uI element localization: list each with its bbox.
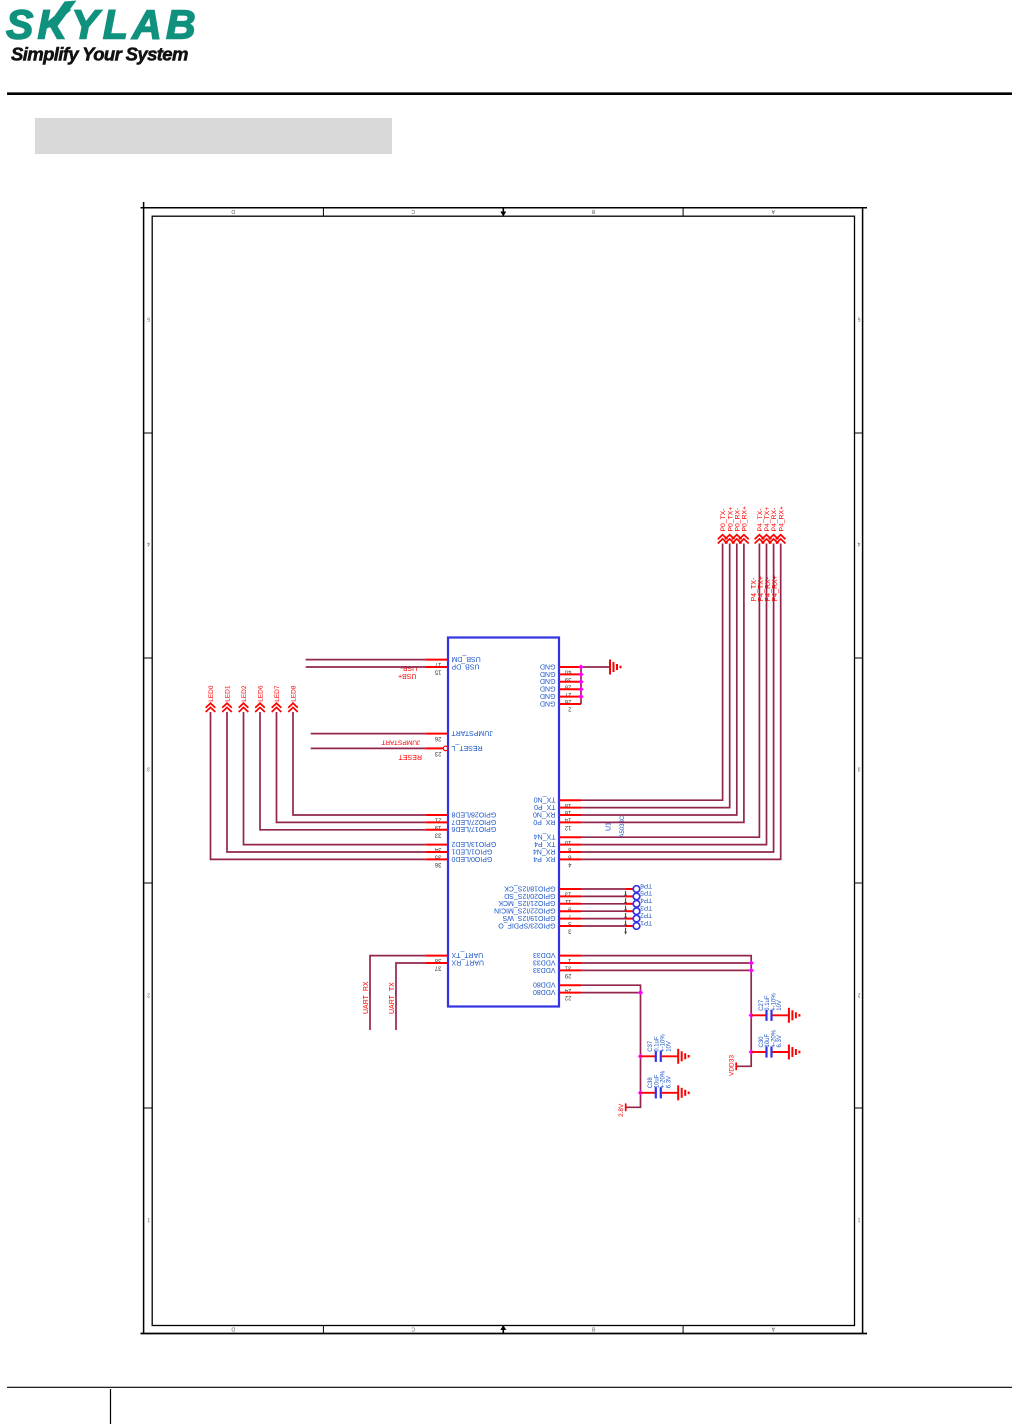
bottom border arrow [502, 1330, 504, 1334]
ground for C37 [677, 1049, 679, 1064]
svg-text:TP3: TP3 [640, 904, 652, 911]
svg-text:GPIO19/I2S_WS: GPIO19/I2S_WS [502, 914, 555, 921]
wire RESET [311, 747, 426, 749]
junction GND 4 [578, 687, 583, 692]
junction GND 5 [578, 694, 583, 699]
svg-text:LED8: LED8 [291, 685, 298, 702]
svg-text:5: 5 [147, 316, 150, 322]
wire TP4 lead [626, 903, 634, 905]
pin 5 GPIO19/I2S_WS (right) [559, 918, 581, 920]
svg-text:0.1uF: 0.1uF [765, 995, 771, 1011]
svg-text:RX_P4: RX_P4 [533, 855, 555, 862]
wire P4_RX+ [581, 544, 781, 860]
svg-text:D: D [231, 1326, 235, 1332]
svg-text:1: 1 [858, 1217, 861, 1223]
svg-text:JUMPSTART: JUMPSTART [451, 729, 493, 736]
top border arrow [502, 208, 504, 212]
wire P4_TX+ [581, 544, 767, 845]
test point TP6 [633, 886, 640, 893]
capacitor C37 0.1uF [641, 1055, 656, 1057]
wire VDD80 pin22 [581, 992, 641, 994]
svg-text:A: A [771, 1326, 775, 1332]
test point TP6 pin arrow [625, 891, 627, 895]
wire TP6 lead [626, 888, 634, 890]
svg-text:B: B [591, 1326, 595, 1332]
svg-text:USB+: USB+ [398, 672, 416, 679]
wire UART_RX vertical [370, 956, 425, 1030]
pin 31 VDD33 (right) [559, 962, 581, 964]
test point TP1 pin arrow [625, 928, 627, 932]
wire UART_TX vertical [396, 963, 425, 1030]
capacitor C27 0.1uF [751, 1014, 766, 1016]
capacitor C38 10uF [641, 1092, 656, 1094]
svg-text:2: 2 [858, 992, 861, 998]
test point TP3 pin arrow [625, 913, 627, 917]
svg-text:USB_DM: USB_DM [451, 655, 480, 662]
pin 14 RX_N0 (right) [559, 814, 581, 816]
svg-text:RESET: RESET [398, 753, 422, 760]
off-page flag P0_RX- [732, 535, 742, 540]
svg-text:LED2: LED2 [241, 685, 248, 702]
svg-text:P4_TX-: P4_TX- [751, 577, 758, 601]
pin 6 RX_N4 (right) [559, 851, 581, 853]
pin 26 JUMPSTART (left) [425, 733, 448, 735]
svg-text:TX_P4: TX_P4 [534, 840, 556, 847]
off-page flag LED1 [222, 703, 232, 708]
svg-text:GPIO21/I2S_MCK: GPIO21/I2S_MCK [498, 899, 556, 906]
svg-text:P0_TX+: P0_TX+ [727, 507, 734, 532]
pin 7 GPIO22/I2S_MICIN (right) [559, 910, 581, 912]
svg-text:26: 26 [434, 735, 441, 741]
wire TP5 [581, 895, 626, 897]
svg-text:P0_RX+: P0_RX+ [742, 506, 749, 532]
svg-text:C27: C27 [759, 999, 765, 1011]
test point TP5 pin arrow [625, 898, 627, 902]
off-page flag P0_TX- [718, 535, 728, 540]
svg-text:10V: 10V [777, 1000, 783, 1011]
svg-text:RX_P0: RX_P0 [533, 818, 555, 825]
svg-text:GND: GND [540, 677, 556, 684]
ground (GND pins) [609, 660, 611, 675]
pin 15 USB_DP (left) [425, 666, 448, 668]
junction VDD80 [638, 990, 643, 995]
pin 18 TX_N0 (right) [559, 799, 581, 801]
svg-text:33: 33 [434, 831, 441, 837]
junction VDD33 a [749, 960, 754, 965]
test point TP5 [633, 893, 640, 900]
svg-text:RX_N4: RX_N4 [533, 847, 556, 854]
logo K flourish stroke [47, 1, 77, 28]
svg-text:TP6: TP6 [640, 882, 652, 889]
svg-text:A: A [771, 208, 775, 214]
svg-text:GPIO18/I2S_CK: GPIO18/I2S_CK [504, 884, 556, 891]
svg-text:C37: C37 [648, 1040, 654, 1052]
test point TP2 [633, 915, 640, 922]
pin 13 GPIO18/I2S_CK (right) [559, 888, 581, 890]
svg-text:USB_DP: USB_DP [451, 662, 479, 669]
pin 37 UART_RX (left) [425, 962, 448, 964]
svg-text:4: 4 [147, 541, 150, 547]
junction GND 3 [578, 679, 583, 684]
test point TP1 [633, 923, 640, 930]
sheet outer border [141, 207, 868, 209]
footer column divider [110, 1389, 112, 1424]
op-amp n/a: IC U1 body [448, 638, 559, 1007]
header rule [7, 92, 1012, 95]
wire TP2 lead [626, 918, 634, 920]
svg-text:B: B [591, 208, 595, 214]
svg-text:GPIO0/LED0: GPIO0/LED0 [451, 855, 492, 862]
wire TP2 [581, 918, 626, 920]
svg-text:GPIO22/I2S_MICIN: GPIO22/I2S_MICIN [494, 907, 555, 914]
pin 33 GPIO17/LED6 (left) [425, 829, 448, 831]
pin 23 RESET_L (left) [443, 746, 448, 751]
off-page flag P0_RX+ [739, 535, 749, 540]
test point TP4 [633, 901, 640, 908]
svg-text:UART_RX: UART_RX [363, 981, 370, 1014]
bottom border zone dividers [322, 1326, 324, 1334]
wire P0_RX+ [581, 544, 744, 823]
off-page flag P4_RX+ [776, 535, 786, 540]
junction C30 [749, 1049, 754, 1054]
wire LED2 [244, 712, 426, 845]
wire P0_RX- [581, 544, 737, 816]
svg-text:P4_TX+: P4_TX+ [764, 507, 771, 532]
svg-text:RX_N0: RX_N0 [533, 810, 556, 817]
wire GND bus vertical [580, 667, 582, 704]
svg-text:4: 4 [568, 861, 572, 867]
pin 22 VDD80 (right) [559, 992, 581, 994]
pin 11 GPIO20/I2S_SD (right) [559, 895, 581, 897]
svg-text:C: C [411, 1326, 415, 1332]
power flag 2.8V [625, 1103, 627, 1111]
pin 34 GPIO13/LED2 (left) [425, 844, 448, 846]
svg-text:6.3V: 6.3V [666, 1076, 672, 1088]
pin 16 TX_P0 (right) [559, 807, 581, 809]
svg-text:Simplify Your System: Simplify Your System [11, 44, 188, 65]
svg-text:VDD33: VDD33 [728, 1055, 735, 1076]
svg-text:LED7: LED7 [274, 685, 281, 702]
junction C38 [638, 1090, 643, 1095]
wire LED6 [260, 712, 425, 830]
svg-text:C: C [411, 208, 415, 214]
svg-text:VDD33: VDD33 [533, 966, 556, 973]
svg-text:1: 1 [147, 1217, 150, 1223]
svg-text:29: 29 [564, 972, 571, 978]
svg-text:15: 15 [434, 669, 441, 675]
left border zone dividers [144, 432, 153, 434]
power flag VDD33 [735, 1062, 737, 1070]
svg-text:LED6: LED6 [258, 685, 265, 702]
svg-text:GPIO1/LED1: GPIO1/LED1 [451, 847, 492, 854]
junction C27 [749, 1013, 754, 1018]
svg-text:VDD33: VDD33 [533, 958, 556, 965]
off-page flag LED6 [255, 703, 265, 708]
svg-text:3: 3 [147, 766, 150, 772]
wire USB_DP [306, 666, 426, 668]
off-page flag P4_TX- [755, 535, 765, 540]
svg-text:TP5: TP5 [640, 889, 652, 896]
pin 27 GND (right) [559, 688, 581, 690]
svg-text:GND: GND [540, 662, 556, 669]
svg-text:GPIO17/LED6: GPIO17/LED6 [451, 825, 496, 832]
pin 12 RX_P0 (right) [559, 821, 581, 823]
svg-text:GPIO13/LED2: GPIO13/LED2 [451, 840, 496, 847]
wire VDD33 pin29 [581, 969, 751, 971]
svg-text:23: 23 [434, 750, 441, 756]
svg-text:SKYLAB: SKYLAB [6, 1, 200, 47]
svg-text:GPIO27/LED7: GPIO27/LED7 [451, 818, 496, 825]
wire TP1 [581, 925, 626, 927]
test point TP2 pin arrow [625, 920, 627, 924]
svg-text:5: 5 [858, 316, 861, 322]
junction VDD33 b [749, 968, 754, 973]
pin 36 GPIO0/LED0 (left) [425, 858, 448, 860]
wire TP1 lead [626, 925, 634, 927]
svg-text:TX_N4: TX_N4 [534, 833, 556, 840]
svg-text:GPIO28/LED8: GPIO28/LED8 [451, 810, 496, 817]
wire VDD33 pin31 [581, 962, 751, 964]
junction GND 2 [578, 672, 583, 677]
svg-text:LED0: LED0 [208, 685, 215, 702]
svg-text:VDD80: VDD80 [533, 988, 556, 995]
svg-text:P0_RX-: P0_RX- [734, 508, 741, 532]
svg-text:P0_TX-: P0_TX- [720, 508, 727, 531]
svg-text:36: 36 [434, 861, 441, 867]
svg-text:0.1uF: 0.1uF [655, 1036, 661, 1052]
svg-text:TP1: TP1 [640, 919, 652, 926]
svg-text:D: D [231, 208, 235, 214]
pin 1 VDD33 (right) [559, 955, 581, 957]
pin 17 USB_DM (left) [425, 659, 448, 661]
wire TP5 lead [626, 895, 634, 897]
svg-text:P4_RX+: P4_RX+ [772, 575, 779, 601]
wire P4_RX- [581, 544, 774, 853]
capacitor C30 10uF [751, 1051, 766, 1053]
svg-text:UART_TX: UART_TX [389, 982, 396, 1014]
svg-text:37: 37 [434, 965, 441, 971]
svg-text:P4_TX-: P4_TX- [757, 508, 764, 531]
svg-text:TP2: TP2 [640, 911, 652, 918]
off-page flag P0_TX+ [725, 535, 735, 540]
svg-text:C38: C38 [648, 1077, 654, 1089]
svg-text:GND: GND [540, 670, 556, 677]
svg-text:UART_TX: UART_TX [451, 951, 483, 958]
svg-text:6.3V: 6.3V [777, 1035, 783, 1047]
pin 4 RX_P4 (right) [559, 858, 581, 860]
wire TP6 [581, 888, 626, 890]
off-page flag P4_RX- [769, 535, 779, 540]
junction C37 [638, 1054, 643, 1059]
svg-text:VDD80: VDD80 [533, 981, 556, 988]
pin 35 GPIO1/LED1 (left) [425, 851, 448, 853]
wire TP3 [581, 910, 626, 912]
wire LED8 [293, 712, 425, 815]
svg-text:TP4: TP4 [640, 897, 652, 904]
svg-text:C30: C30 [759, 1036, 765, 1048]
test point TP4 pin arrow [625, 906, 627, 910]
wire TP4 [581, 903, 626, 905]
svg-text:3: 3 [858, 766, 861, 772]
svg-text:TX_P0: TX_P0 [534, 803, 556, 810]
svg-text:GPIO20/I2S_SD: GPIO20/I2S_SD [504, 892, 555, 899]
pin 19 GPIO27/LED7 (left) [425, 821, 448, 823]
pin 39 GND (right) [559, 673, 581, 675]
off-page flag LED0 [206, 703, 216, 708]
top border zone dividers [322, 208, 324, 217]
svg-text:2: 2 [568, 706, 572, 712]
svg-text:TX_N0: TX_N0 [534, 796, 556, 803]
junction GND 1 [578, 664, 583, 669]
pin 24 VDD80 (right) [559, 984, 581, 986]
pin 40 GND (right) [559, 666, 581, 668]
svg-text:JUMPSTART: JUMPSTART [381, 738, 420, 745]
wire VDD80 pin24 [581, 985, 641, 1107]
wire JUMPSTART [311, 733, 426, 735]
pin 28 GND (right) [559, 681, 581, 683]
off-page flag LED2 [239, 703, 249, 708]
wire LED1 [227, 712, 425, 852]
pin 26 GND (right) [559, 696, 581, 698]
svg-text:12: 12 [564, 824, 571, 830]
ground for C38 [677, 1085, 679, 1100]
svg-text:U1: U1 [606, 822, 613, 831]
test point TP3 [633, 908, 640, 915]
wire GND to ground [581, 666, 610, 668]
ground for C30 [788, 1045, 790, 1060]
svg-text:GPIO23/SPDIF_O: GPIO23/SPDIF_O [498, 921, 556, 928]
section title bar [35, 118, 392, 154]
pin 3 GPIO23/SPDIF_O (right) [559, 925, 581, 927]
ground for C27 [788, 1008, 790, 1023]
wire USB_DM [306, 659, 426, 661]
footer rule [7, 1386, 1012, 1388]
sheet inner border [152, 216, 854, 1325]
pin 9 GPIO21/I2S_MCK (right) [559, 903, 581, 905]
svg-text:3: 3 [568, 928, 572, 934]
svg-text:GND: GND [540, 692, 556, 699]
svg-text:22: 22 [564, 994, 571, 1000]
off-page flag P4_TX+ [762, 535, 772, 540]
wire P0_TX- [581, 544, 723, 801]
svg-text:GND: GND [540, 685, 556, 692]
pin 21 GPIO28/LED8 (left) [425, 814, 448, 816]
svg-text:RESET_L: RESET_L [451, 744, 482, 751]
svg-text:10uF: 10uF [765, 1033, 771, 1047]
svg-text:10uF: 10uF [655, 1074, 661, 1088]
off-page flag LED8 [288, 703, 298, 708]
svg-text:VDD33: VDD33 [533, 951, 556, 958]
pin 10 TX_N4 (right) [559, 836, 581, 838]
wire LED7 [277, 712, 426, 822]
pin 2 GND (right) [559, 703, 581, 705]
svg-text:2: 2 [147, 992, 150, 998]
svg-text:UART_RX: UART_RX [451, 958, 484, 965]
wire VDD33 pin1 [581, 956, 751, 1067]
svg-text:P4_RX+: P4_RX+ [778, 506, 785, 532]
svg-text:4: 4 [858, 541, 861, 547]
pin 8 TX_P4 (right) [559, 844, 581, 846]
off-page flag LED7 [272, 703, 282, 708]
svg-text:A5033C: A5033C [620, 815, 626, 837]
right border zone dividers [855, 432, 863, 434]
svg-text:LED1: LED1 [225, 685, 232, 702]
wire P0_TX+ [581, 544, 730, 808]
wire P4_TX- [581, 544, 759, 838]
svg-text:2.8V: 2.8V [618, 1103, 625, 1117]
svg-text:10V: 10V [666, 1041, 672, 1052]
svg-text:P4_RX-: P4_RX- [765, 576, 772, 601]
wire LED0 [211, 712, 426, 859]
svg-text:P4_RX-: P4_RX- [771, 508, 778, 532]
svg-text:P4_TX+: P4_TX+ [758, 576, 765, 602]
pin 29 VDD33 (right) [559, 969, 581, 971]
wire TP3 lead [626, 910, 634, 912]
svg-text:GND: GND [540, 699, 556, 706]
pin 38 UART_TX (left) [425, 955, 448, 957]
